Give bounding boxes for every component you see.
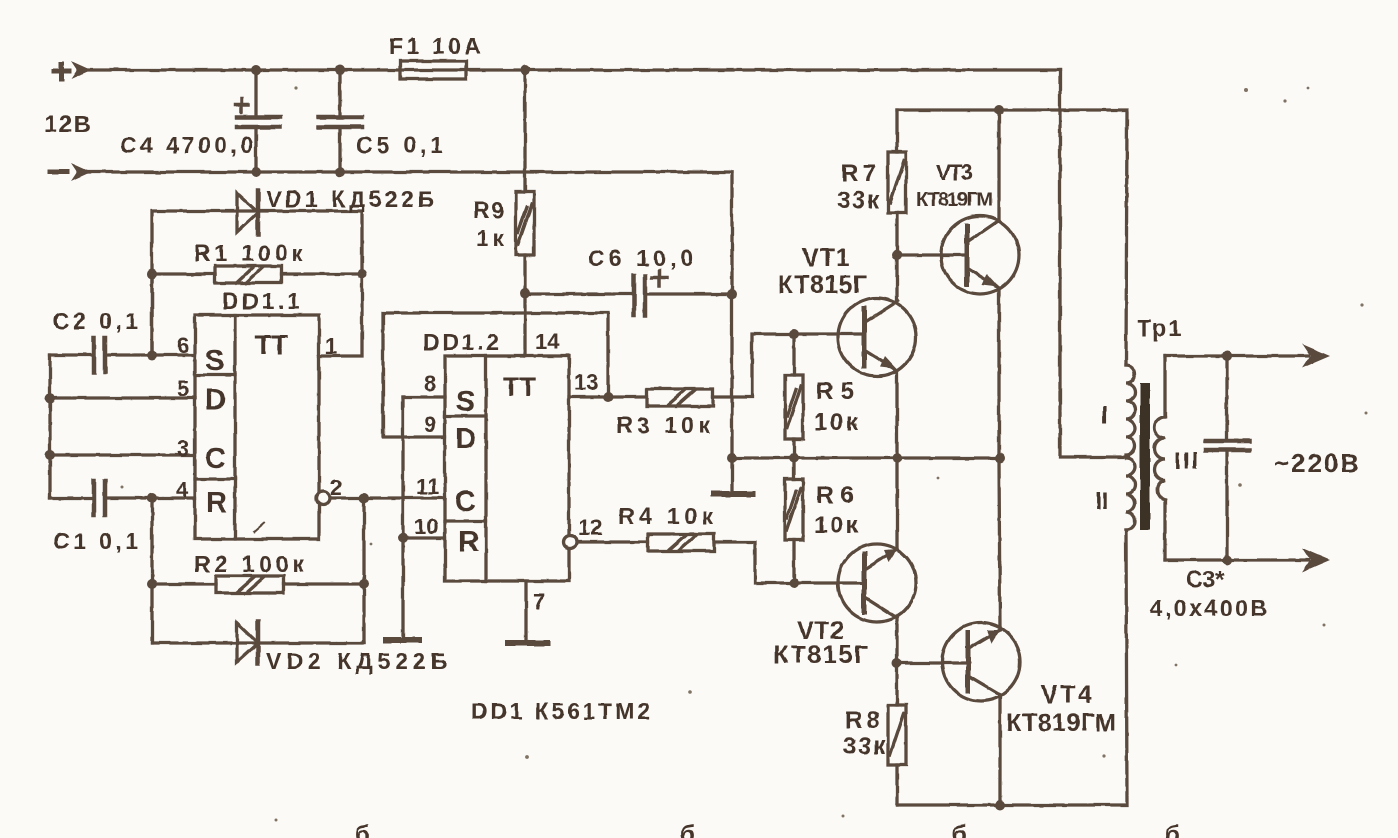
transistor VT1 [838,298,916,376]
svg-text:VD1 КД522Б: VD1 КД522Б [266,186,434,212]
resistor R7 [888,110,906,255]
flip-flop DD1.2 [445,356,569,581]
svg-text:КТ815Г: КТ815Г [773,641,868,669]
svg-text:VT3: VT3 [936,160,973,185]
capacitor C6 [525,271,737,315]
svg-text:III: III [1174,448,1198,475]
wire feedback left vertical [150,274,153,355]
node plus sign [54,64,69,79]
svg-text:12: 12 [578,515,602,540]
svg-text:ТТ: ТТ [255,330,288,360]
svg-text:R2 100к: R2 100к [194,551,304,577]
wire DD1.2 pin14 supply [523,293,526,356]
svg-text:C: C [205,443,226,475]
svg-text:DD1.1: DD1.1 [222,288,300,314]
transformer winding I [1126,365,1135,455]
svg-text:б: б [355,821,370,838]
svg-text:4,0х400В: 4,0х400В [1150,595,1267,621]
resistor R1 [147,266,367,283]
wire DD1.2 feedback loop [383,313,608,437]
node DD1.2 pin12 circle [564,536,577,549]
wire pin8-pin10 ground vertical [398,397,408,640]
resistor R3 [569,329,864,406]
capacitor C1 [50,481,195,515]
wire pin8 [403,395,445,398]
svg-text:7: 7 [533,589,545,614]
wire VT1 emitter to bus [892,370,902,463]
svg-text:3: 3 [177,436,189,461]
wire top +12V rail [78,68,1060,71]
svg-text:D: D [205,384,226,416]
wire left column vertical [48,355,51,498]
svg-text:КТ815Г: КТ815Г [778,271,867,299]
diode VD2 [152,621,364,664]
transformer winding III [1155,356,1166,560]
svg-text:33к: 33к [843,733,886,760]
transformer core [1140,383,1150,530]
svg-text:DD1.2: DD1.2 [423,329,499,355]
svg-text:С1 0,1: С1 0,1 [53,528,138,554]
svg-text:б: б [952,821,967,838]
wire output top [1165,344,1330,368]
svg-text:10к: 10к [814,409,859,436]
svg-text:13: 13 [574,370,598,395]
wire VT2 emitter to bus [895,458,898,549]
svg-text:5: 5 [177,376,189,401]
node minus sign [50,170,67,175]
wire common bus vertical [730,294,733,458]
fuse F1 [400,61,466,79]
node DD1.1 pin2 circle [317,492,446,505]
wire VT4 collector down [995,695,1005,810]
svg-text:VD2 КД522Б: VD2 КД522Б [266,648,447,674]
transistor VT4 [897,623,1020,701]
wire output bottom [1165,548,1330,572]
svg-text:С2 0,1: С2 0,1 [53,308,138,334]
scan specks [121,86,1368,821]
svg-text:I: I [1101,402,1108,429]
wire VT2 collector down [892,618,902,668]
wire DD1.1 pin1 to feedback [319,274,362,356]
svg-text:б: б [680,821,695,838]
capacitor C4 [235,65,280,177]
wire VT1 collector up [892,250,902,301]
svg-text:9: 9 [424,412,436,437]
svg-text:S: S [456,386,475,418]
svg-text:II: II [1095,488,1108,515]
resistor R8 [888,663,906,805]
wire +12V to center tap [1060,70,1128,457]
wire VT3 collector up [997,110,1000,220]
diode VD1 [152,191,362,355]
wire common bus horizontal [732,456,1000,459]
svg-text:ТТ: ТТ [503,372,536,402]
svg-text:DD1 К561ТМ2: DD1 К561ТМ2 [471,698,650,724]
svg-text:КТ819ГМ: КТ819ГМ [1006,709,1116,737]
svg-text:КТ819ГМ: КТ819ГМ [916,189,993,211]
svg-text:С4 4700,0: С4 4700,0 [120,132,253,158]
svg-text:Тр1: Тр1 [1137,315,1181,341]
svg-text:C: C [455,486,476,518]
ground symbol pins 8 10 [386,637,419,643]
svg-text:11: 11 [416,474,439,499]
svg-text:~220В: ~220В [1274,448,1359,478]
svg-text:2: 2 [330,475,342,500]
svg-text:R9: R9 [473,197,504,223]
svg-text:14: 14 [535,329,560,354]
svg-text:10: 10 [414,514,438,539]
wire VT3 emitter down to VT4 emitter [995,288,1005,630]
svg-text:С3*: С3* [1186,566,1224,592]
svg-text:б: б [1165,821,1180,838]
resistor R6 [785,458,803,583]
capacitor C2 [50,338,195,372]
wire collector line VT1-VT3 to winding I [897,105,1127,365]
wire minus rail [78,170,732,173]
wire R loop left vertical [150,498,153,643]
node minus terminal arrow [71,163,91,181]
flip-flop DD1.1 [195,315,319,539]
wire pin3 [45,450,195,460]
ground symbol common [714,453,752,494]
svg-text:R1 100к: R1 100к [194,240,303,266]
svg-text:4: 4 [176,477,189,502]
node plus terminal arrow [71,61,91,79]
wire pin5 [45,393,195,403]
svg-text:F1 10A: F1 10A [389,33,481,59]
svg-text:33к: 33к [837,187,880,214]
wire DD1.2 pin7 ground [524,581,527,643]
svg-text:VT1: VT1 [802,244,850,272]
svg-text:6: 6 [177,333,189,358]
svg-text:R: R [458,526,479,558]
resistor R5 [785,334,803,463]
resistor R9 [516,65,534,298]
resistor R4 [577,534,864,588]
ground symbol pin7 [508,640,547,646]
capacitor C5 [318,65,362,177]
wire pin2 feedback vertical [362,498,365,643]
svg-text:12В: 12В [44,111,91,138]
svg-text:8: 8 [424,371,436,396]
resistor R2 [147,576,369,593]
transformer winding II [1126,458,1135,530]
wire minus rail drop to C6 line [730,172,733,294]
svg-text:R: R [206,487,227,519]
svg-text:VT4: VT4 [1041,681,1092,709]
svg-text:S: S [205,345,224,377]
svg-text:10к: 10к [814,512,859,539]
wire bottom bus winding II [897,530,1127,805]
svg-text:1: 1 [325,334,337,359]
capacitor C3 [1206,356,1249,560]
transistor VT3 [897,216,1019,294]
svg-text:D: D [455,423,476,455]
transistor VT2 [838,544,916,622]
wire pin10 [403,536,445,539]
